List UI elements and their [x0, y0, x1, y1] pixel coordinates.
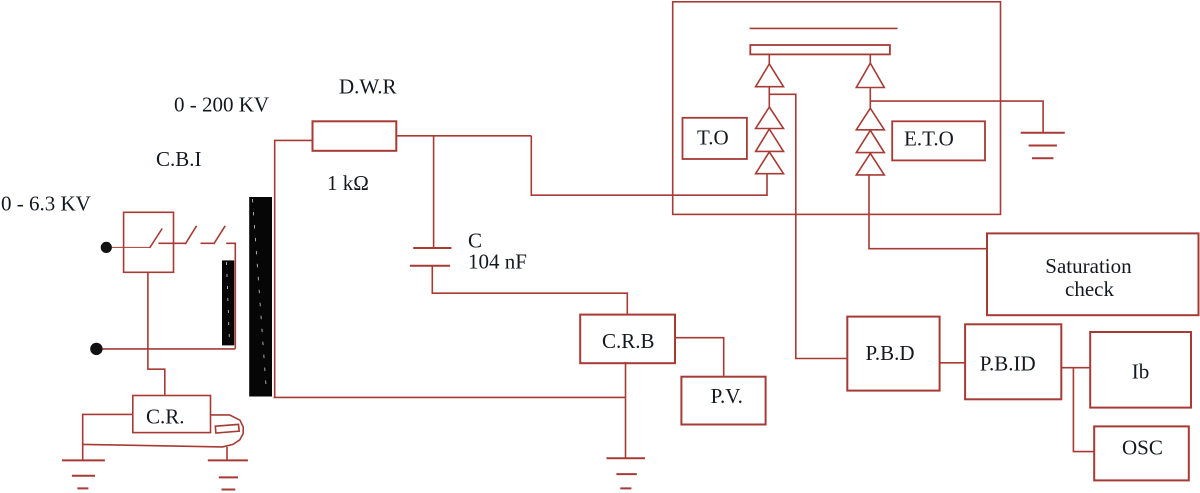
- wire bottom bus: [274, 396, 626, 398]
- OSC box: [1094, 426, 1189, 480]
- ground bottom middle: [607, 458, 646, 488]
- multiplier enclosure box: [673, 2, 1001, 215]
- wire bottom terminal to LV winding: [103, 348, 236, 350]
- wire right stack bottom to Saturation check: [869, 175, 987, 249]
- svg-text:0 - 6.3 KV: 0 - 6.3 KV: [1, 192, 91, 216]
- svg-text:104 nF: 104 nF: [468, 250, 527, 274]
- diode D3: [756, 129, 784, 151]
- wire C.R.B right to P.V.: [675, 338, 724, 377]
- svg-text:T.O: T.O: [697, 126, 729, 150]
- diode D6: [856, 108, 884, 130]
- wire P.B.D to P.B.ID: [940, 362, 966, 364]
- wire bar to right stack: [869, 54, 871, 63]
- switch box C.B.I: [124, 212, 174, 272]
- wire resistor node down to capacitor: [433, 136, 435, 248]
- wire bar to left stack: [768, 54, 770, 64]
- wire switch box bottom down to C.R. box: [148, 272, 165, 395]
- diode D5: [856, 63, 884, 87]
- P.B.D box: [847, 317, 939, 391]
- switch blade 1: [150, 229, 163, 248]
- wire cable loop to ground: [226, 447, 228, 461]
- wire switch output to corner and down to LV winding: [226, 243, 235, 349]
- transformer LV winding black bar: [222, 260, 234, 345]
- capacitor C plates: [410, 248, 452, 266]
- wire D5 to stack: [869, 88, 871, 109]
- P.B.ID box: [965, 324, 1061, 399]
- svg-text:C.B.I: C.B.I: [156, 147, 202, 171]
- svg-text:OSC: OSC: [1122, 435, 1163, 459]
- svg-text:D.W.R: D.W.R: [339, 75, 397, 99]
- svg-text:check: check: [1065, 277, 1114, 301]
- Saturation check box: [987, 233, 1199, 315]
- wire HV feed to multiplier stack: [531, 136, 767, 195]
- wire left stack junction to P.B.D: [769, 94, 847, 358]
- svg-text:Saturation: Saturation: [1045, 254, 1132, 278]
- diode D2: [756, 107, 784, 129]
- svg-text:1 kΩ: 1 kΩ: [327, 171, 369, 195]
- wire C.R.B bottom to ground: [625, 362, 627, 458]
- svg-text:C.R.: C.R.: [146, 404, 185, 428]
- wire terminal to switch blade: [112, 246, 150, 248]
- diode D8: [856, 153, 884, 175]
- top electrode bar: [750, 45, 890, 54]
- wire switch segment 2: [201, 242, 215, 244]
- svg-text:P.B.D: P.B.D: [866, 341, 915, 365]
- switch blade 3: [214, 226, 226, 244]
- E.T.O box: [892, 121, 985, 160]
- wire right stack junction to ground: [870, 101, 1043, 133]
- C.R.B box: [580, 315, 675, 364]
- svg-text:P.B.ID: P.B.ID: [980, 352, 1036, 376]
- Ib box: [1090, 332, 1191, 408]
- svg-text:0 - 200 KV: 0 - 200 KV: [174, 92, 269, 116]
- P.V. box: [681, 377, 765, 425]
- svg-text:Ib: Ib: [1132, 359, 1150, 383]
- diode D4: [756, 152, 784, 174]
- LV winding seam: [227, 262, 230, 344]
- wire C.R. left side to ground: [83, 414, 133, 460]
- wire D1 to stack: [768, 87, 770, 107]
- svg-text:P.V.: P.V.: [711, 384, 743, 408]
- resistor D.W.R: [313, 121, 397, 151]
- wire P.B.ID to Ib and OSC: [1061, 368, 1094, 452]
- ground under cable loop: [208, 460, 248, 489]
- top electrode line: [750, 27, 898, 29]
- ground left: [62, 460, 105, 488]
- cable loop shape: [83, 415, 243, 447]
- diode D7: [856, 130, 884, 152]
- svg-text:E.T.O: E.T.O: [904, 126, 954, 150]
- ground right of enclosure: [1021, 133, 1065, 159]
- C.R. box: [133, 396, 211, 433]
- switch blade 2: [185, 226, 196, 244]
- transformer HV winding black bar: [249, 197, 272, 397]
- wire switch segment 1: [158, 242, 185, 244]
- T.O box: [683, 118, 747, 159]
- wire HV winding top to D.W.R resistor: [275, 140, 313, 397]
- HV winding seam: [253, 199, 267, 392]
- wire resistor output node: [396, 135, 531, 137]
- diode D1: [756, 64, 784, 87]
- cable loop inner rect: [215, 424, 239, 433]
- terminal dot top input: [101, 242, 112, 253]
- wire capacitor bottom to C.R.B: [432, 266, 627, 315]
- terminal dot bottom input: [90, 343, 102, 355]
- svg-text:C.R.B: C.R.B: [602, 329, 655, 353]
